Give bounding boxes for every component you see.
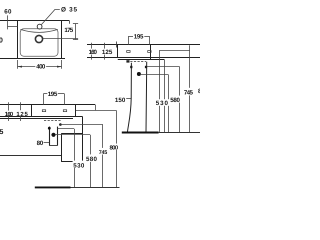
150 leader: [126, 98, 131, 100]
basin rect right edge: [150, 45, 152, 60]
second underside line: [0, 118, 73, 120]
160 dim vertical: [8, 102, 10, 121]
rim bottom line: [0, 116, 82, 118]
745 dim line: [102, 124, 104, 187]
195 dim bracket: [44, 93, 48, 95]
left drop of bracket: [159, 50, 161, 132]
dot leader: [141, 74, 168, 76]
outlet dot: [59, 123, 62, 126]
580 leader from dot: [56, 134, 90, 136]
fixing dot: [137, 72, 141, 76]
pedestal left edge: [127, 63, 131, 133]
530 text: [155, 99, 169, 106]
fixing mark right: [63, 110, 66, 112]
floor bold segment: [122, 132, 159, 134]
60 dim line: [8, 26, 18, 28]
530 dim line: [168, 75, 170, 133]
fixing mark left: [127, 51, 130, 53]
bottom rim line with extension: [0, 58, 65, 60]
160 text: [88, 49, 98, 55]
400 text: [35, 63, 46, 70]
hidden dashed line under basin: [130, 61, 146, 63]
svg-text:800: 800: [110, 145, 119, 152]
745 dim line from underside corner: [164, 59, 166, 132]
60 dim tick: [7, 15, 9, 29]
bold dash left end: [126, 60, 129, 62]
step leader to 800 line: [75, 110, 116, 112]
svg-text:580: 580: [86, 156, 98, 163]
svg-text:160: 160: [89, 49, 98, 56]
svg-text:745: 745: [184, 90, 194, 97]
125 text: [16, 110, 29, 116]
floor bold segment: [35, 186, 71, 188]
small fixing dot: [48, 127, 51, 130]
pedestal fixing square left: [130, 66, 132, 68]
rim bottom line: [87, 57, 200, 59]
waste pipe right: [57, 127, 59, 146]
pipe bottom: [49, 145, 57, 147]
back edge tick: [116, 42, 118, 48]
basin rect right edge: [75, 105, 77, 116]
175 dim line: [75, 24, 77, 40]
745 leader: [60, 124, 102, 126]
160 dim vertical: [91, 43, 93, 60]
long horizontal line at y=155 to semi-pedestal: [0, 155, 61, 157]
semi-pedestal top: [61, 133, 82, 135]
left edge: [17, 21, 19, 59]
530 text: [73, 161, 86, 168]
right edge: [61, 21, 63, 59]
80 leader: [44, 142, 50, 144]
svg-text:8: 8: [198, 88, 200, 95]
drain ring: [35, 35, 42, 42]
400 dim line: [18, 66, 62, 68]
right drop of bracket (tall 800 line): [189, 45, 191, 132]
svg-text:580: 580: [170, 97, 180, 104]
basin sag curve: [20, 29, 57, 32]
upper bracket line y=50: [160, 50, 190, 52]
svg-text:400: 400: [36, 63, 46, 70]
125 dim vertical: [20, 102, 22, 121]
rim top line: [87, 44, 200, 46]
svg-text:125: 125: [102, 49, 113, 56]
pedestal fixing square right: [145, 66, 147, 68]
tap hole: [37, 24, 42, 29]
svg-text:80: 80: [37, 140, 44, 147]
400 dim extensions: [17, 60, 19, 69]
second underside line: [118, 59, 164, 61]
svg-text:530: 530: [73, 162, 85, 169]
fixing mark right: [148, 51, 151, 53]
svg-text:745: 745: [99, 150, 107, 156]
inner basin: [20, 29, 58, 56]
top rim line with extension: [0, 20, 70, 22]
745 text: [183, 88, 193, 96]
svg-text:125: 125: [16, 111, 28, 118]
pedestal right edge: [145, 62, 148, 133]
svg-text:40: 40: [0, 35, 3, 44]
745 text: [98, 148, 108, 155]
basin rect left edge: [31, 105, 33, 116]
drain leader: [43, 38, 78, 40]
svg-text:150: 150: [115, 97, 126, 104]
580 text: [170, 96, 181, 103]
800 dim line: [116, 110, 118, 187]
wall edge: [82, 116, 84, 162]
800 text: [109, 144, 119, 150]
svg-text:60: 60: [4, 9, 12, 16]
semi-pedestal front: [61, 134, 63, 162]
svg-text:Ø 35: Ø 35: [61, 7, 77, 14]
waste pipe left: [49, 127, 51, 146]
leader to O35: [41, 9, 59, 24]
rim top line: [0, 104, 95, 106]
hidden dashed outlet: [44, 120, 62, 122]
580 dim line: [179, 66, 181, 132]
530 dim line: [74, 129, 76, 188]
580 text: [85, 154, 98, 161]
floor thin segment: [71, 187, 120, 189]
svg-text:195: 195: [48, 91, 58, 98]
160 text: [4, 111, 13, 116]
svg-text:530: 530: [156, 100, 169, 107]
step down: [95, 105, 97, 111]
125 dim vertical: [104, 43, 106, 60]
svg-text:195: 195: [134, 34, 144, 41]
big fixing dot: [51, 133, 55, 137]
svg-text:160: 160: [5, 111, 14, 118]
svg-text:175: 175: [64, 27, 73, 34]
floor thin segment: [159, 132, 200, 134]
530 leader: [58, 128, 75, 130]
400 arrows: [18, 66, 23, 68]
overflow leader: [147, 66, 179, 68]
fixing mark left: [42, 110, 45, 112]
195 dim bracket: [128, 36, 133, 38]
basin rect left edge: [117, 45, 119, 58]
semi-pedestal bottom: [61, 161, 82, 163]
580 dim line: [90, 135, 92, 188]
svg-text:75: 75: [0, 129, 3, 136]
125 text: [101, 49, 113, 55]
